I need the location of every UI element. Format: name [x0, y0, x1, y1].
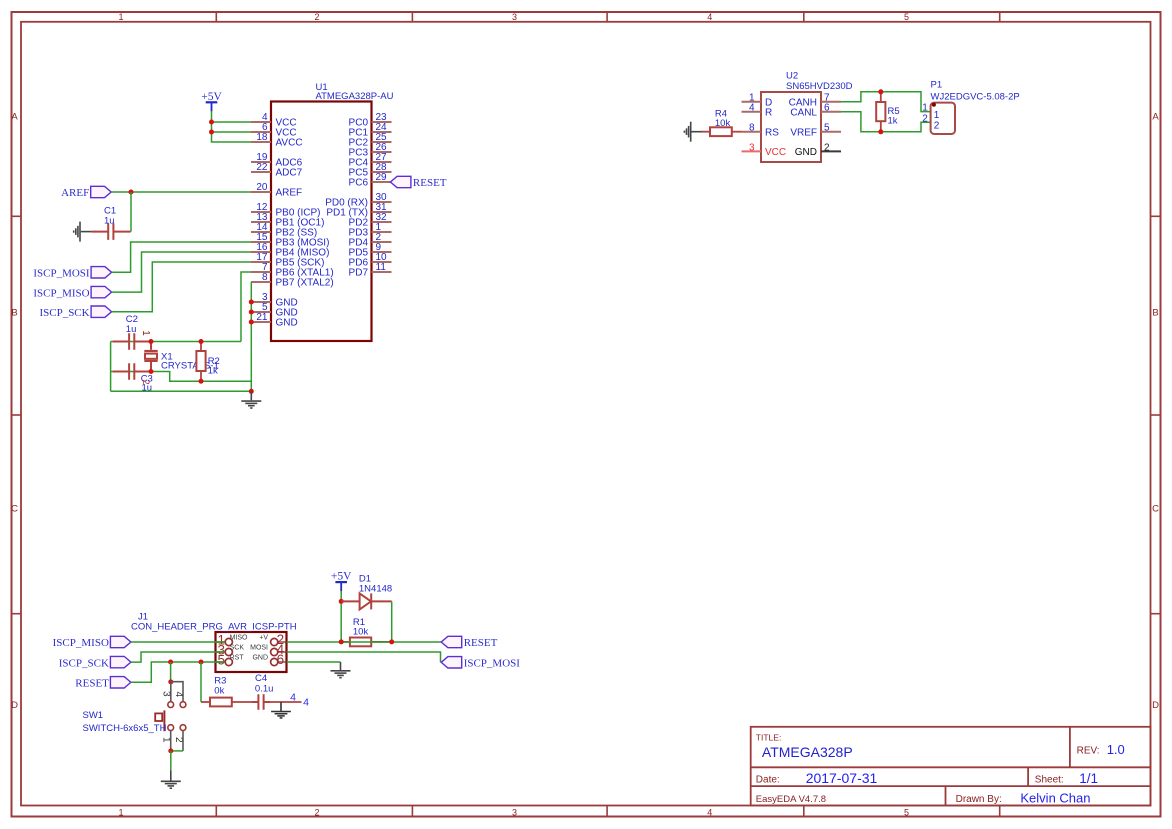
net flag ISCP_MOSI (right) [441, 657, 520, 670]
connector J1 CON_HEADER_PRG_AVR_ICSP-PTH body [131, 611, 297, 672]
capacitor C2 [113, 333, 151, 350]
wire PB7/GND vertical [250, 282, 252, 391]
connector P1 WJ2EDGVC-5.08-2P body [931, 80, 1020, 134]
switch SW1 pin 3 line [170, 682, 172, 702]
P1 pin 1 polarity dot [932, 103, 936, 107]
op-amp U2 SN65HVD230D body [761, 70, 853, 162]
junction GND pin 21 [249, 320, 254, 325]
U1 pin 14 PB2 (SS) [251, 222, 317, 238]
svg-text:PD7: PD7 [349, 268, 369, 279]
wire ISCP_MOSI to PB3 [112, 242, 251, 272]
capacitor C4 [252, 694, 270, 710]
svg-text:PB7 (XTAL2): PB7 (XTAL2) [276, 278, 334, 289]
svg-text:+V: +V [259, 634, 268, 641]
svg-text:4: 4 [290, 692, 296, 704]
U2 pin 1 D [742, 93, 773, 109]
J1 pin 5 RST [217, 653, 245, 668]
resistor R5 leads [880, 92, 882, 132]
svg-text:4: 4 [303, 696, 309, 708]
svg-text:RS: RS [765, 127, 779, 138]
U2 pin 5 VREF [790, 123, 841, 139]
U1 pin 4 VCC [251, 112, 297, 128]
svg-text:WJ2EDGVC-5.08-2P: WJ2EDGVC-5.08-2P [931, 91, 1020, 102]
switch SW1 labels [83, 710, 167, 734]
wire CANL to P1 pin 2 [841, 112, 931, 132]
wire AREF node down to C1 [130, 192, 132, 232]
junction R2 top [199, 339, 204, 344]
U1 pin 32 PD2 [349, 212, 392, 228]
junction R1 right/RESET [389, 639, 394, 644]
net flag RESET (J1) [75, 677, 131, 690]
junction SW1 pin 3/4 bridge [168, 679, 173, 684]
svg-text:SCK: SCK [230, 644, 245, 651]
switch SW1 pin 1 [160, 725, 173, 743]
resistor R5 labels [888, 106, 900, 126]
svg-text:1: 1 [118, 808, 123, 818]
svg-text:11: 11 [376, 262, 387, 273]
junction R3 branch [199, 660, 204, 665]
switch SW1 pin 2 [173, 725, 186, 743]
wire ISCP_MISO to PB4 [112, 252, 251, 292]
svg-text:CANL: CANL [790, 107, 817, 118]
wire C3 row [111, 371, 151, 373]
U1 pin 28 PC5 [349, 162, 392, 178]
svg-text:ISCP_SCK: ISCP_SCK [59, 657, 109, 669]
svg-text:ISCP_MISO: ISCP_MISO [53, 637, 109, 649]
capacitor C4 labels [255, 673, 274, 694]
svg-text:+5V: +5V [201, 91, 222, 103]
resistor R2 leads [200, 342, 202, 382]
op-amp U1 ATMEGA328P-AU body [271, 82, 394, 341]
svg-text:22: 22 [256, 162, 268, 173]
wire +5V to VCC pin 4 [212, 121, 252, 123]
frame row letters [11, 112, 1159, 712]
svg-text:B: B [1152, 308, 1158, 319]
switch SW1 actuator [155, 710, 164, 731]
resistor R4 labels [715, 109, 731, 129]
svg-text:2: 2 [141, 380, 151, 385]
U1 pin 6 VCC [251, 122, 297, 138]
junction SW1 branch [168, 660, 173, 665]
svg-text:8: 8 [749, 123, 755, 134]
U1 pin 16 PB4 (MISO) [251, 242, 329, 258]
svg-text:Kelvin Chan: Kelvin Chan [1020, 790, 1090, 805]
capacitor C3 [113, 363, 151, 380]
wire J1 pin4 MOSI [287, 652, 441, 662]
junction GND pin 5 [249, 310, 254, 315]
capacitor C2 labels [126, 314, 138, 335]
svg-text:8: 8 [262, 272, 268, 283]
net flag ISCP_MISO (J1) [53, 636, 131, 649]
svg-text:VREF: VREF [790, 127, 817, 138]
svg-text:R: R [765, 107, 772, 118]
U1 pin 30 PD0 (RX) [325, 192, 391, 208]
U1 pin 29 PC6 [349, 172, 392, 188]
svg-text:SW1: SW1 [83, 710, 104, 721]
switch SW1 pin 4 [173, 692, 186, 708]
wire SW1 to ground [170, 751, 172, 771]
junction GND pin 3 [249, 300, 254, 305]
svg-text:MOSI: MOSI [250, 644, 268, 651]
U1 pin 31 PD1 (TX) [326, 202, 391, 218]
U2 pin 6 CANL [790, 103, 841, 119]
junction SW1 pin 1/2 bridge [168, 748, 173, 753]
svg-text:10k: 10k [715, 118, 731, 129]
svg-text:REV:: REV: [1077, 746, 1100, 757]
wire ISCP_SCK to PB5 [112, 262, 251, 312]
svg-text:2: 2 [824, 142, 830, 153]
J1 pin 3 SCK [217, 643, 245, 658]
svg-text:ADC7: ADC7 [276, 168, 303, 179]
net flag ISCP_SCK (U1) [39, 306, 111, 319]
title block [751, 727, 1151, 807]
svg-text:4: 4 [707, 808, 712, 818]
net flag RESET (right) [441, 636, 497, 649]
svg-text:2: 2 [314, 808, 319, 818]
crystal X1 labels [161, 352, 219, 372]
U2 pin 8 RS [742, 123, 780, 139]
ground at J1 pin 6 [331, 662, 351, 678]
U2 pin 3 VCC [742, 142, 787, 158]
svg-text:0.1u: 0.1u [255, 683, 274, 694]
J1 pin 2 +V [259, 632, 285, 647]
diode D1 1N4148 [341, 593, 392, 609]
svg-text:4: 4 [707, 12, 712, 22]
switch SW1 pin lines bottom [171, 731, 183, 751]
svg-text:21: 21 [256, 312, 268, 323]
ground at C1 [74, 222, 92, 242]
svg-text:1: 1 [118, 12, 123, 22]
net flag ISCP_MOSI (U1) [33, 267, 111, 280]
junction R5 bottom [878, 129, 883, 134]
svg-text:2: 2 [173, 737, 184, 743]
svg-text:1: 1 [934, 110, 940, 121]
resistor R3 leads [201, 701, 256, 703]
svg-text:Date:: Date: [756, 774, 780, 785]
power flag +5V (U1) [201, 91, 222, 111]
U1 pin 17 PB5 (SCK) [251, 252, 324, 268]
svg-text:1N4148: 1N4148 [359, 583, 392, 594]
U1 pin 19 ADC6 [251, 152, 303, 168]
svg-text:ISCP_MISO: ISCP_MISO [33, 287, 89, 299]
svg-text:1.0: 1.0 [1107, 742, 1125, 757]
svg-text:2: 2 [934, 121, 940, 132]
svg-text:5: 5 [904, 808, 909, 818]
wire ISCP_MISO to J1 pin 1 [131, 641, 225, 643]
capacitor C1 labels [104, 206, 116, 227]
svg-text:C: C [1152, 504, 1159, 515]
svg-text:4: 4 [749, 103, 755, 114]
svg-text:RST: RST [230, 654, 245, 661]
U1 pin 21 GND [251, 312, 298, 328]
wire CANH to P1 pin 1 [841, 92, 931, 112]
U1 pin 25 PC2 [349, 132, 392, 148]
svg-text:RESET: RESET [413, 177, 447, 189]
svg-text:3: 3 [749, 142, 755, 153]
svg-text:3: 3 [512, 808, 517, 818]
J1 pin 1 MISO [217, 633, 249, 648]
U1 pin 24 PC1 [349, 122, 392, 138]
svg-text:A: A [11, 112, 18, 123]
U1 pin 7 PB6 (XTAL1) [251, 262, 334, 278]
svg-text:ISCP_SCK: ISCP_SCK [39, 307, 89, 319]
svg-text:5: 5 [824, 123, 830, 134]
U1 pin 5 GND [251, 302, 298, 318]
U1 pin 18 AVCC [251, 132, 303, 148]
resistor R2 [196, 351, 205, 371]
svg-text:GND: GND [276, 318, 298, 329]
net flag RESET (U1) [390, 176, 446, 189]
svg-text:6: 6 [824, 103, 830, 114]
resistor R4 leads [701, 131, 710, 133]
capacitor C4 right lead [270, 701, 302, 703]
svg-text:5: 5 [904, 12, 909, 22]
U1 pin 2 PD4 [349, 232, 392, 248]
svg-text:SWITCH-6x6x5_TH: SWITCH-6x6x5_TH [83, 723, 167, 734]
svg-text:MISO: MISO [230, 634, 248, 641]
P1 pin 1 [922, 103, 940, 122]
resistor R5 [876, 102, 885, 121]
ground below SW1 [161, 771, 181, 789]
J1 pin 4 MOSI [250, 642, 285, 657]
net flag ISCP_MISO (U1) [33, 286, 111, 299]
U1 pin 26 PC3 [349, 142, 392, 158]
svg-text:PC6: PC6 [349, 178, 369, 189]
svg-text:U2: U2 [786, 70, 798, 81]
svg-text:29: 29 [376, 172, 388, 183]
U1 pin 20 AREF [251, 182, 302, 198]
net flag AREF [61, 186, 111, 199]
svg-text:RESET: RESET [464, 637, 498, 649]
svg-text:P1: P1 [931, 80, 943, 91]
switch SW1 top bridge [171, 682, 183, 702]
junction R5 top [878, 89, 883, 94]
svg-text:2017-07-31: 2017-07-31 [806, 770, 878, 786]
svg-text:ISCP_MOSI: ISCP_MOSI [464, 658, 521, 670]
ground at R4 [684, 122, 701, 142]
ground at C4 [271, 702, 291, 718]
wire +5V down to R1 row [340, 591, 342, 642]
svg-text:B: B [11, 308, 17, 319]
resistor R1 [350, 638, 371, 647]
junction C3/X1 bottom [149, 369, 154, 374]
svg-text:4: 4 [173, 692, 184, 698]
svg-text:VCC: VCC [765, 147, 786, 158]
svg-text:D: D [11, 700, 18, 711]
wire +5V to VCC pin 6 [212, 131, 252, 133]
svg-text:TITLE:: TITLE: [756, 732, 782, 742]
U1 pin 10 PD6 [349, 252, 392, 268]
resistor R3 labels [214, 676, 226, 697]
resistor R3 [210, 698, 232, 707]
U1 pin 27 PC4 [349, 152, 392, 168]
crystal X1 [144, 342, 157, 372]
U2 pin 7 CANH [789, 93, 841, 109]
U2 pin 4 R [742, 103, 773, 119]
svg-text:AREF: AREF [61, 187, 89, 199]
wire left vertical C2/C3 [110, 342, 112, 392]
wire AREF to pin 20 [111, 191, 251, 193]
svg-text:1k: 1k [888, 115, 898, 126]
U1 pin 23 PC0 [349, 112, 392, 128]
svg-text:3: 3 [512, 12, 517, 22]
svg-text:1/1: 1/1 [1079, 771, 1098, 786]
junction AREF/C1 [129, 190, 134, 195]
wire J1 pin6 GND [287, 661, 341, 663]
C4 net stub pin number 4 [290, 692, 309, 709]
junction +5V/pin4 [209, 120, 214, 125]
svg-text:D: D [1152, 700, 1159, 711]
svg-text:5: 5 [217, 653, 225, 668]
wire RESET to J1 pin 5 [131, 662, 225, 682]
svg-text:ATMEGA328P: ATMEGA328P [762, 744, 853, 760]
wire XTAL1 rail [111, 341, 241, 343]
svg-text:+5V: +5V [331, 571, 352, 583]
wire +5V to AVCC pin 18 [212, 111, 252, 142]
junction +5V/D1 [339, 599, 344, 604]
svg-text:10k: 10k [353, 627, 369, 638]
power flag +5V (D1) [331, 571, 352, 592]
ground below U1 [241, 391, 261, 408]
svg-text:AVCC: AVCC [276, 138, 303, 149]
svg-text:CON_HEADER_PRG_AVR_ICSP-PTH: CON_HEADER_PRG_AVR_ICSP-PTH [131, 622, 297, 633]
svg-text:GND: GND [252, 654, 268, 661]
J1 pin 6 GND [252, 652, 285, 667]
svg-text:C: C [11, 504, 18, 515]
svg-text:20: 20 [256, 182, 268, 193]
svg-text:1: 1 [140, 330, 151, 336]
svg-text:AREF: AREF [276, 188, 303, 199]
svg-text:ATMEGA328P-AU: ATMEGA328P-AU [316, 91, 394, 102]
wire J1 pin2/+5V/R1 to RESET [287, 641, 442, 643]
svg-text:GND: GND [795, 147, 817, 158]
svg-text:2: 2 [314, 12, 319, 22]
switch SW1 pin 3 [160, 691, 173, 707]
capacitor C1 [91, 223, 130, 240]
svg-text:3: 3 [160, 691, 171, 697]
svg-text:1u: 1u [126, 324, 137, 335]
P1 pin 2 [922, 113, 940, 131]
junction ground rail [249, 389, 254, 394]
junction C2/X1 top [149, 339, 154, 344]
U1 pin 11 PD7 [349, 262, 392, 278]
junction +5V/R1 left [339, 639, 344, 644]
svg-text:2: 2 [922, 113, 928, 124]
wire SW1 top [170, 662, 172, 682]
U1 pin 1 PD3 [349, 222, 392, 238]
wire PB6/XTAL1 down [241, 272, 251, 342]
U1 pin 13 PB1 (OC1) [251, 212, 324, 228]
svg-text:Sheet:: Sheet: [1035, 774, 1064, 785]
wire D1 cathode down [391, 601, 393, 642]
resistor R2 labels [208, 356, 220, 376]
junction +5V/pin6 [209, 130, 214, 135]
net flag ISCP_SCK (J1) [59, 656, 131, 669]
U1 pin 8 PB7 (XTAL2) [251, 272, 334, 288]
U1 pin 3 GND [251, 292, 298, 308]
svg-text:RESET: RESET [75, 678, 109, 690]
resistor R4 [710, 127, 732, 136]
resistor R1 leads [341, 641, 392, 643]
wire ISCP_SCK to J1 pin 3 [131, 652, 225, 662]
wire XTAL2 rail [151, 372, 251, 382]
svg-text:6: 6 [277, 652, 285, 667]
frame column numbers [118, 12, 909, 818]
U1 pin 15 PB3 (MOSI) [251, 232, 329, 248]
wire R3 branch down [200, 662, 202, 702]
wire SW1 bottom bridge [171, 750, 183, 752]
junction R2 bottom [199, 379, 204, 384]
U1 pin 22 ADC7 [251, 162, 303, 178]
svg-text:SN65HVD230D: SN65HVD230D [786, 81, 853, 92]
svg-text:ISCP_MOSI: ISCP_MOSI [33, 268, 90, 280]
svg-text:A: A [1152, 112, 1159, 123]
svg-text:1: 1 [160, 737, 171, 743]
svg-text:0k: 0k [214, 685, 224, 696]
wire ground rail [111, 390, 252, 392]
U1 pin 9 PD5 [349, 242, 392, 258]
U2 pin 2 GND [795, 142, 841, 158]
resistor R1 labels [353, 617, 369, 638]
svg-text:18: 18 [256, 132, 268, 143]
diode D1 labels [359, 573, 392, 594]
svg-text:1: 1 [922, 103, 928, 114]
svg-text:Drawn By:: Drawn By: [956, 794, 1002, 805]
capacitor C3 labels [141, 373, 153, 393]
svg-text:EasyEDA V4.7.8: EasyEDA V4.7.8 [756, 794, 826, 805]
U1 pin 12 PB0 (ICP) [251, 202, 321, 218]
svg-text:1k: 1k [208, 365, 218, 376]
